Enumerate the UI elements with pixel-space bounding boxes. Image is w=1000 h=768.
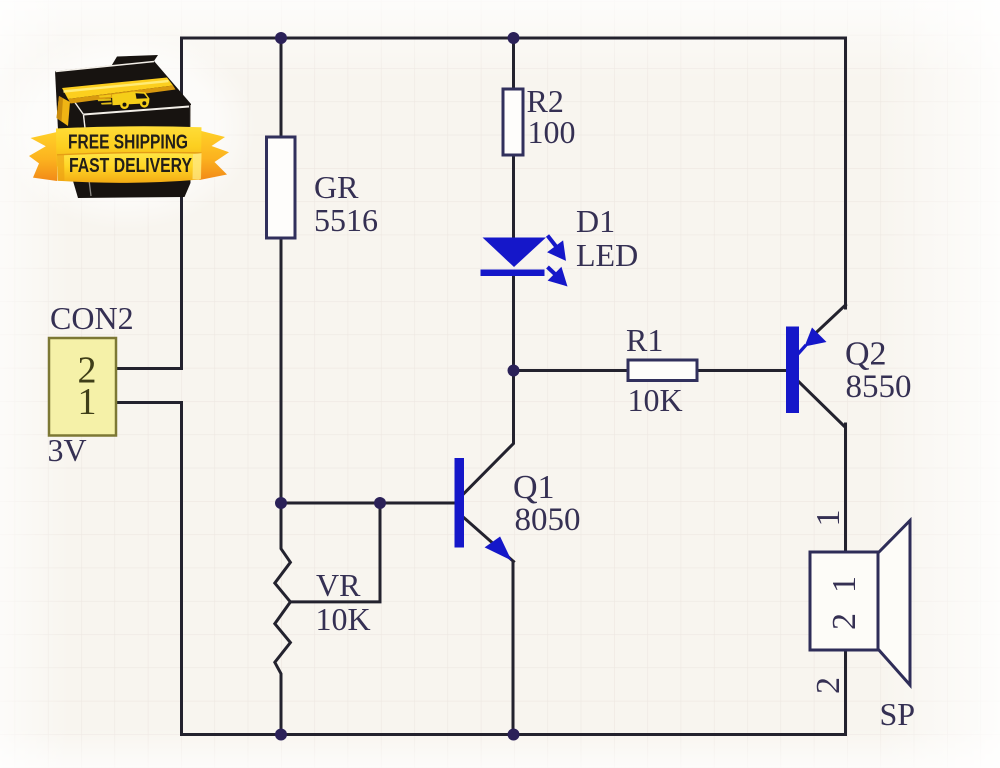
svg-text:1: 1 xyxy=(78,381,97,423)
svg-text:8050: 8050 xyxy=(515,502,581,538)
svg-text:100: 100 xyxy=(528,114,576,150)
svg-text:5516: 5516 xyxy=(314,202,378,238)
svg-text:10K: 10K xyxy=(628,382,683,418)
svg-text:8550: 8550 xyxy=(846,369,912,405)
svg-text:Q2: Q2 xyxy=(845,336,887,373)
svg-text:FREE SHIPPING: FREE SHIPPING xyxy=(68,131,188,153)
svg-text:FAST DELIVERY: FAST DELIVERY xyxy=(69,154,192,177)
svg-text:Q1: Q1 xyxy=(513,469,555,506)
svg-text:SP: SP xyxy=(880,696,916,732)
svg-text:CON2: CON2 xyxy=(50,300,134,336)
svg-text:1: 1 xyxy=(810,510,847,527)
svg-text:LED: LED xyxy=(576,237,638,273)
svg-text:D1: D1 xyxy=(576,203,615,239)
svg-text:10K: 10K xyxy=(316,601,371,637)
svg-text:VR: VR xyxy=(316,567,361,603)
svg-text:R1: R1 xyxy=(626,322,663,358)
svg-text:GR: GR xyxy=(314,169,359,205)
svg-text:2: 2 xyxy=(826,613,863,630)
svg-text:2: 2 xyxy=(810,677,847,694)
svg-text:3V: 3V xyxy=(48,432,87,468)
svg-text:1: 1 xyxy=(826,576,863,593)
